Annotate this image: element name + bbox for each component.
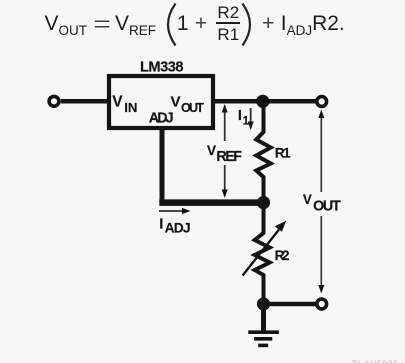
svg-text:V: V <box>171 94 181 111</box>
node C junction <box>257 297 270 310</box>
svg-text:I: I <box>159 216 163 233</box>
node A junction <box>256 95 269 108</box>
wire ADJ pin down <box>160 128 165 206</box>
R2 wiper arrow <box>243 221 287 276</box>
resistor R2 <box>255 203 270 304</box>
svg-text:1: 1 <box>243 116 250 128</box>
svg-text:R1: R1 <box>275 146 291 161</box>
faint watermark <box>352 359 405 363</box>
svg-text:V: V <box>207 143 217 158</box>
resistor R1 <box>256 101 270 202</box>
ground <box>248 332 279 345</box>
output terminal top <box>317 97 327 107</box>
wire ADJ feedback horizontal <box>159 199 263 206</box>
svg-text:V: V <box>112 94 123 111</box>
svg-text:IN: IN <box>124 100 137 115</box>
Iadj arrow <box>159 208 191 214</box>
regulator U1 LM338 box <box>109 76 213 128</box>
I1 arrow <box>248 108 254 130</box>
Vout arrow (double) <box>318 110 324 294</box>
wire to ground <box>261 304 266 333</box>
svg-text:ADJ: ADJ <box>165 221 191 236</box>
Vref arrow (double) <box>222 104 228 198</box>
input terminal <box>49 96 59 106</box>
svg-text:V: V <box>303 192 312 207</box>
svg-text:OUT: OUT <box>313 198 341 214</box>
svg-text:ADJ: ADJ <box>149 110 174 126</box>
svg-text:LM338: LM338 <box>140 60 184 76</box>
output terminal bottom <box>317 299 327 309</box>
svg-text:R2: R2 <box>275 248 290 263</box>
svg-text:REF: REF <box>216 149 242 165</box>
node B junction <box>257 196 270 209</box>
wire Vout pin to node A <box>213 99 316 104</box>
svg-text:OUT: OUT <box>181 101 204 115</box>
wire node C to bottom terminal <box>264 302 317 307</box>
svg-text:I: I <box>238 108 242 124</box>
formula Vout = Vref(1 + R2/R1) + Iadj*R2 <box>45 1 345 47</box>
wire input to Vin <box>61 99 108 104</box>
